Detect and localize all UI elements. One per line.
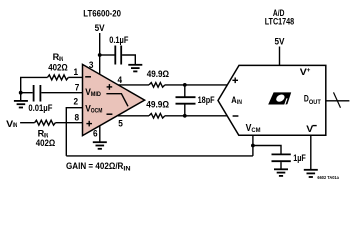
svg-text:GAIN = 402Ω/R: GAIN = 402Ω/R	[66, 161, 124, 171]
resistor RIN bottom 402 ohm	[35, 120, 56, 125]
op-amp output plus mark	[107, 84, 113, 90]
wire dot to 0.1uF cap	[100, 54, 115, 56]
wire 0.1uF cap to ground	[122, 55, 135, 64]
node junction dot VCM	[251, 144, 255, 148]
svg-text:CM: CM	[251, 127, 260, 134]
op-amp pin 8 plus mark	[86, 121, 92, 127]
node junction dot top output	[183, 83, 187, 87]
wire 0.01uF to pin 7	[41, 92, 82, 94]
wire pin 5 to resistor	[118, 115, 149, 117]
svg-text:6: 6	[93, 129, 98, 140]
ground (input node)	[20, 93, 22, 101]
svg-text:+: +	[306, 67, 310, 74]
ground (1uF)	[274, 169, 288, 176]
svg-text:1: 1	[74, 67, 79, 78]
op-amp pin 6 wire	[99, 126, 101, 142]
svg-text:0.1µF: 0.1µF	[109, 35, 129, 45]
wire resistor to ADC AIN+	[165, 84, 228, 86]
ADC AIN+ plus mark	[232, 78, 238, 84]
svg-text:OCM: OCM	[91, 107, 103, 114]
wire DOUT output bus	[326, 100, 350, 102]
svg-text:5: 5	[118, 119, 123, 130]
svg-text:3: 3	[89, 60, 94, 71]
ground (ADC V-)	[304, 170, 318, 177]
svg-text:0.01µF: 0.01µF	[28, 103, 52, 113]
capacitor 0.1uF	[114, 46, 116, 65]
svg-text:LTC1748: LTC1748	[265, 17, 295, 27]
wire VIN to resistor	[20, 122, 34, 124]
svg-text:402Ω: 402Ω	[48, 62, 67, 72]
wire VCM down to rail	[252, 135, 254, 156]
op-amp U1 LT6600-20 triangle	[83, 64, 145, 135]
svg-text:402Ω: 402Ω	[36, 138, 56, 148]
svg-text:LT6600-20: LT6600-20	[83, 8, 121, 18]
wire pin 4 to resistor	[118, 84, 149, 86]
resistor 49.9 ohm bottom	[149, 114, 165, 119]
svg-text:18pF: 18pF	[198, 95, 216, 105]
wire resistor to pin 8	[55, 122, 82, 124]
ground (op-amp pin 6)	[93, 142, 107, 149]
svg-text:5V: 5V	[95, 23, 106, 33]
op-amp pin 1 minus mark	[85, 76, 91, 78]
capacitor 0.01uF	[33, 85, 35, 102]
op-amp internal stage line	[106, 94, 128, 107]
svg-text:IN: IN	[123, 166, 131, 173]
svg-text:IN: IN	[237, 99, 243, 106]
svg-text:49.9Ω: 49.9Ω	[146, 99, 169, 109]
wire VOCM pin 2 to bottom rail	[66, 108, 82, 156]
wire pin1 branch to ground node	[21, 77, 48, 92]
wire 5V supply to pin 3	[99, 33, 101, 74]
ADC AIN- minus mark	[233, 115, 239, 117]
bus slash mark	[334, 92, 341, 107]
LT logo	[268, 92, 291, 104]
svg-text:7: 7	[75, 83, 80, 94]
op-amp output minus mark	[107, 113, 113, 115]
resistor 49.9 ohm top	[149, 83, 165, 88]
wire resistor to ADC AIN-	[165, 115, 227, 117]
wire resistor to pin 1	[68, 76, 82, 78]
svg-text:1µF: 1µF	[293, 153, 306, 163]
capacitor 18pF	[184, 85, 186, 97]
svg-text:6602 TA01a: 6602 TA01a	[317, 175, 339, 180]
svg-text:2: 2	[74, 97, 79, 108]
wire dot to 0.01uF	[21, 92, 33, 94]
A/D converter U2 LTC1748 outline	[218, 65, 326, 135]
node junction dot (ground node left)	[19, 91, 23, 95]
node junction dot 5V/bypass	[98, 53, 102, 57]
bottom rail wire VOCM to VCM	[66, 155, 253, 157]
wire ADC V- to ground	[310, 135, 312, 169]
node junction dot bottom output	[183, 114, 187, 118]
svg-text:8: 8	[75, 112, 80, 123]
svg-text:IN: IN	[13, 122, 18, 129]
svg-text:49.9Ω: 49.9Ω	[147, 69, 169, 79]
capacitor 1uF	[272, 153, 291, 155]
resistor RIN top 402 ohm	[48, 75, 69, 80]
wire VCM to 1uF cap	[253, 146, 281, 154]
ground (0.1uF bypass)	[128, 65, 142, 72]
wire ADC 5V supply	[279, 47, 281, 66]
svg-text:OUT: OUT	[309, 99, 321, 106]
wire 1uF to ground	[280, 162, 282, 169]
svg-text:5V: 5V	[275, 36, 286, 46]
svg-text:MID: MID	[91, 91, 102, 98]
